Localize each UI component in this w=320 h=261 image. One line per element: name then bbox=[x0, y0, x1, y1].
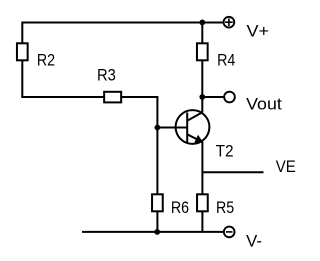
svg-text:R4: R4 bbox=[217, 50, 235, 69]
wire Vout stub bbox=[202, 96, 224, 98]
svg-text:V+: V+ bbox=[247, 22, 270, 41]
resistor R5 bbox=[197, 194, 208, 211]
svg-text:R5: R5 bbox=[216, 198, 234, 217]
junction dot base node bbox=[155, 125, 161, 131]
svg-text:V-: V- bbox=[246, 232, 262, 251]
wire left branch through R2 bbox=[21, 22, 23, 98]
junction dot V+ rail / R4 bbox=[199, 20, 205, 26]
wire VE tap bbox=[202, 171, 263, 173]
svg-text:VE: VE bbox=[276, 157, 296, 176]
wire V+ top rail bbox=[22, 22, 222, 24]
wire R4 column bbox=[201, 23, 203, 98]
terminal V- minus sign bbox=[226, 231, 233, 233]
svg-text:R3: R3 bbox=[97, 65, 116, 84]
transistor T2 base bar bbox=[186, 113, 188, 143]
transistor T2 emitter arrow bbox=[195, 136, 202, 143]
terminal V+ circle bbox=[224, 17, 235, 28]
terminal V+ plus sign bbox=[225, 18, 233, 26]
wire base bbox=[157, 127, 187, 129]
wire collector stub bbox=[201, 97, 203, 112]
resistor R4 bbox=[197, 43, 208, 60]
svg-text:Vout: Vout bbox=[246, 94, 282, 113]
terminal Vout circle bbox=[224, 92, 235, 103]
resistor R3 bbox=[104, 92, 121, 103]
junction dot collector / Vout bbox=[199, 94, 205, 100]
svg-text:T2: T2 bbox=[216, 142, 234, 161]
wire emitter column bbox=[201, 142, 203, 232]
resistor R6 bbox=[152, 194, 163, 211]
transistor T2 bbox=[176, 110, 210, 144]
transistor T2 circle bbox=[176, 110, 210, 144]
wire V- bottom rail bbox=[82, 231, 224, 233]
resistor R2 bbox=[17, 43, 28, 60]
wire R6 column bbox=[156, 96, 158, 232]
junction dot V- rail / R6 bbox=[154, 229, 160, 235]
transistor T2 collector diagonal bbox=[187, 112, 202, 121]
wire bottom-left to R3 node bbox=[21, 96, 157, 98]
terminal V- circle bbox=[224, 227, 235, 238]
transistor T2 emitter diagonal bbox=[187, 134, 202, 142]
svg-text:R2: R2 bbox=[37, 51, 55, 70]
svg-text:R6: R6 bbox=[171, 198, 189, 217]
